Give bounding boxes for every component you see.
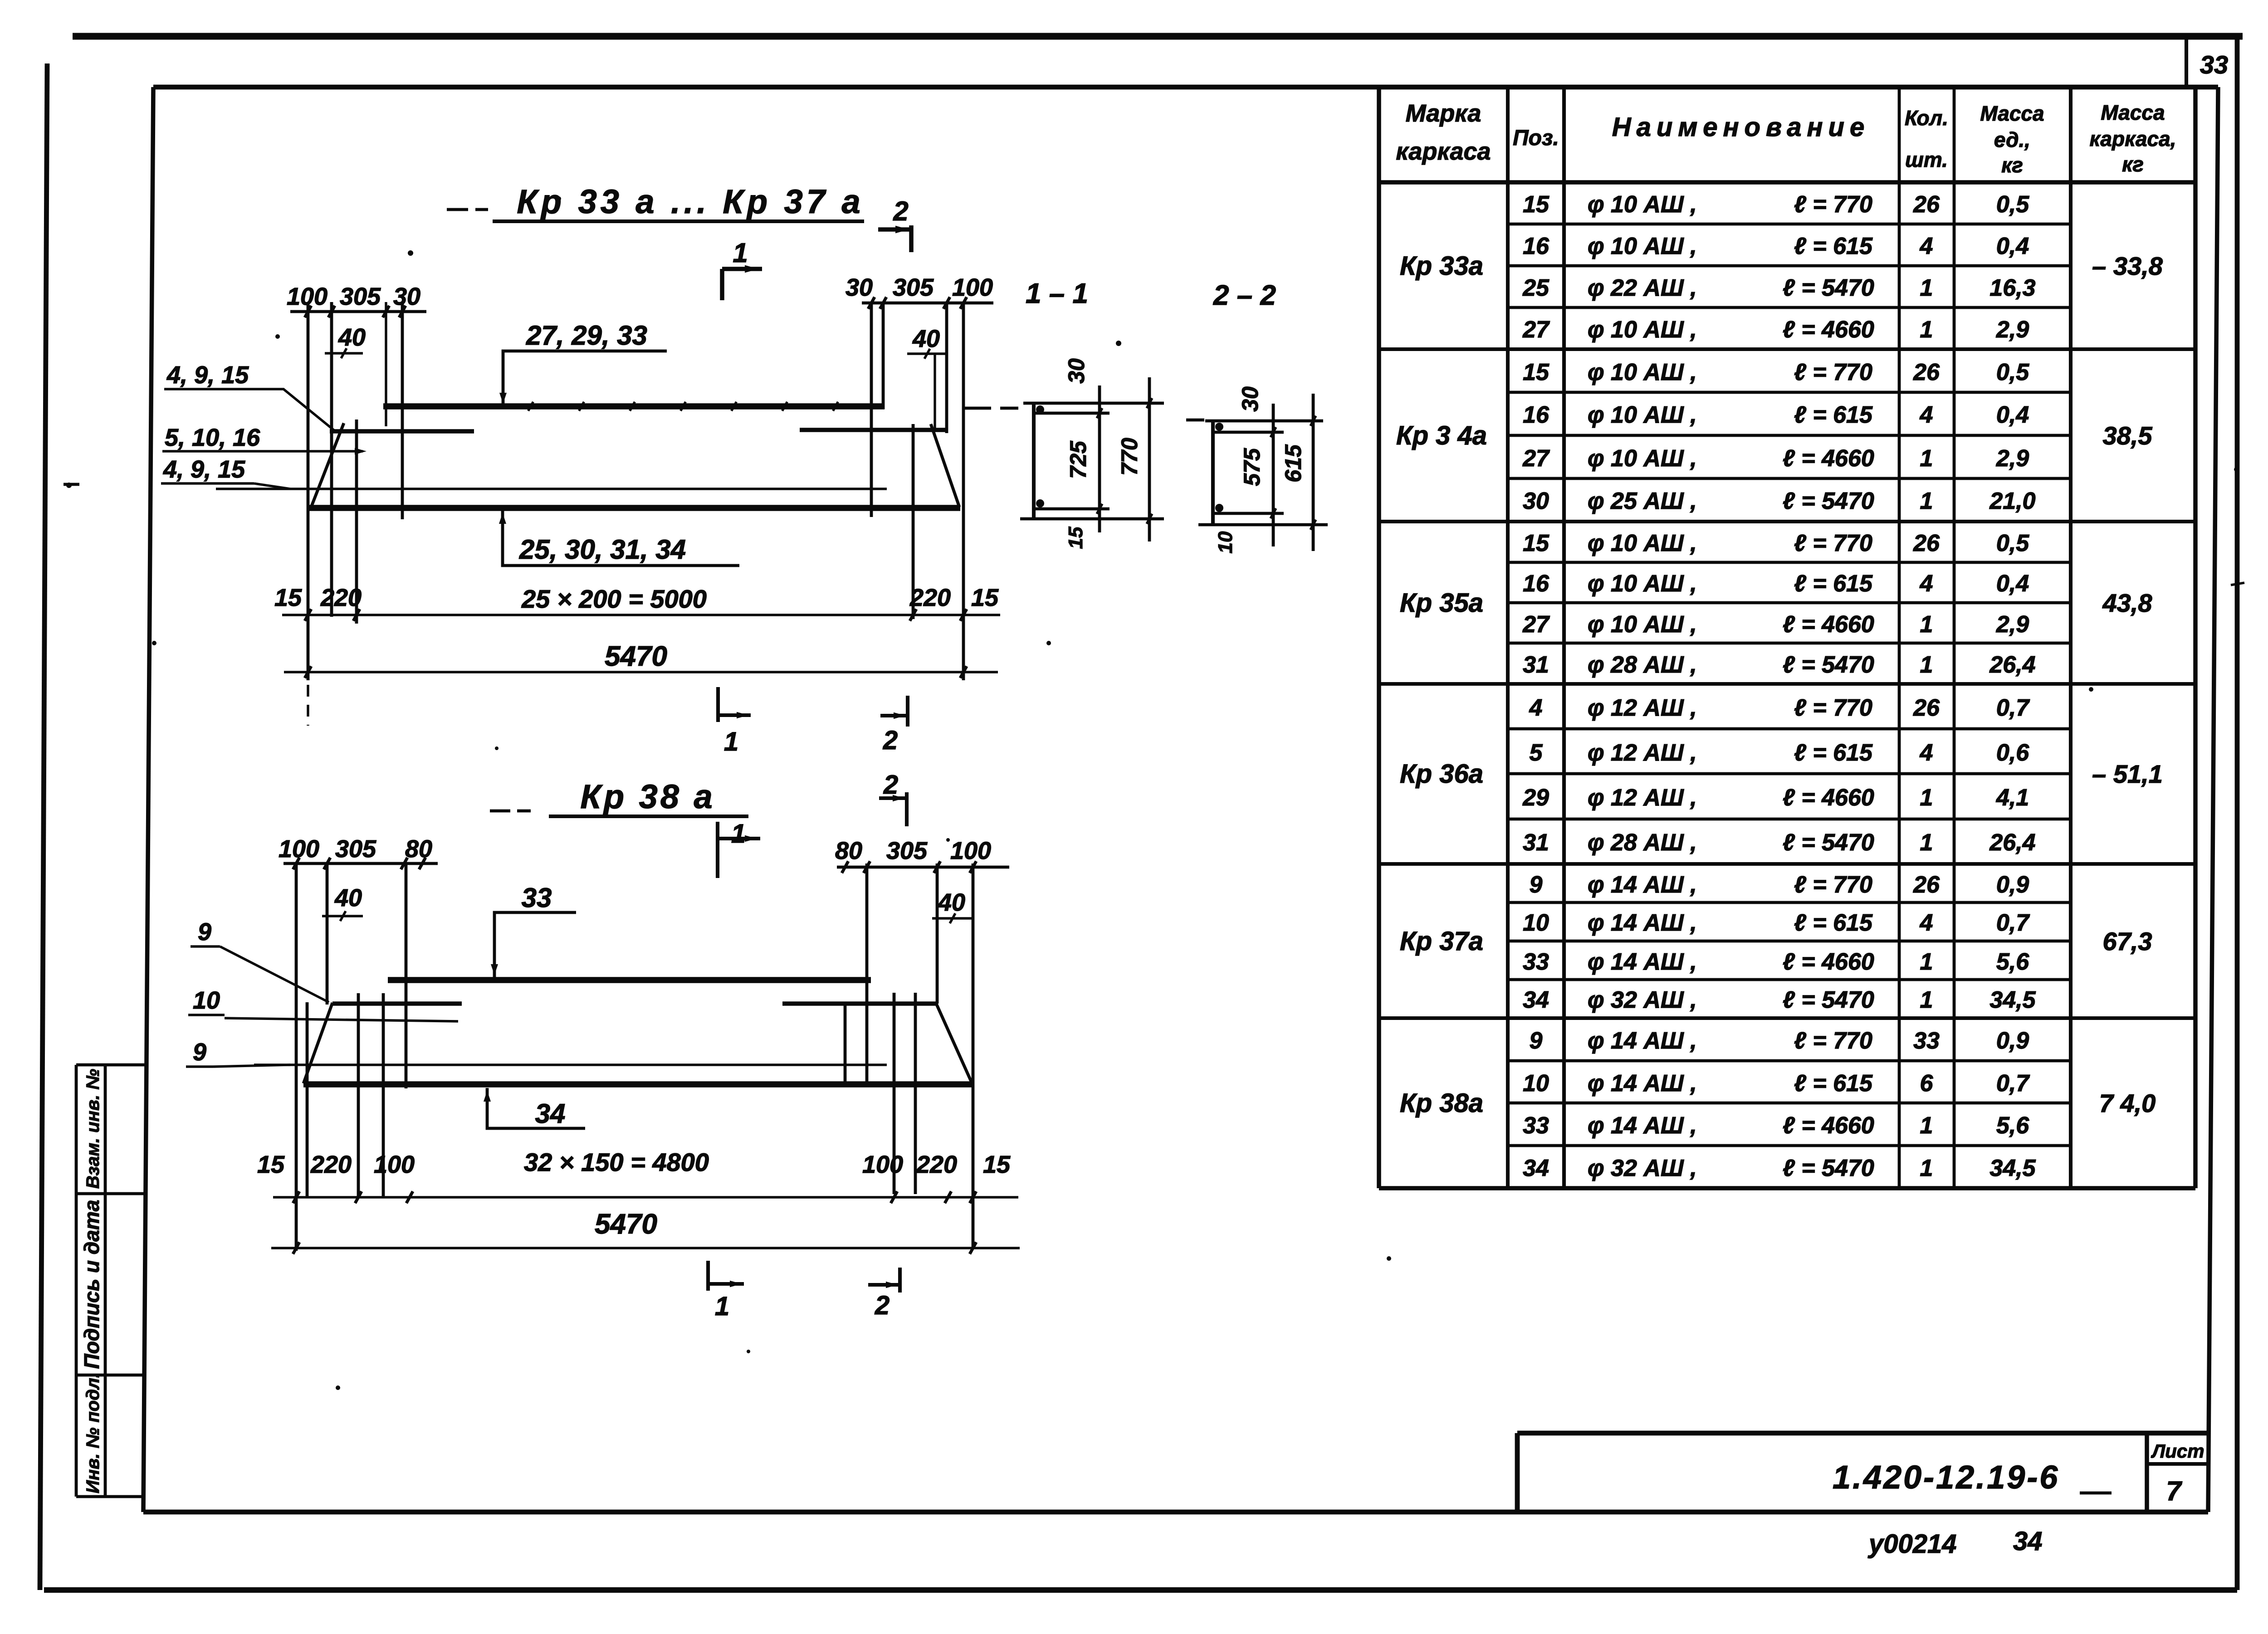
svg-text:ℓ = 770: ℓ = 770 (1794, 872, 1872, 898)
svg-text:0,5: 0,5 (1996, 359, 2029, 385)
svg-text:5, 10, 16: 5, 10, 16 (165, 424, 260, 451)
svg-text:15: 15 (983, 1151, 1011, 1178)
svg-text:4: 4 (1529, 695, 1543, 721)
table outer and column lines (1377, 87, 1381, 1188)
svg-text:1: 1 (1920, 987, 1933, 1013)
svg-text:220: 220 (916, 1151, 957, 1178)
svg-text:Инв. № подл.: Инв. № подл. (83, 1373, 103, 1493)
inner frame right (2208, 87, 2218, 1512)
svg-text:26: 26 (1913, 530, 1940, 556)
svg-text:ℓ = 615: ℓ = 615 (1794, 910, 1873, 936)
svg-text:ℓ = 5470: ℓ = 5470 (1783, 987, 1874, 1013)
svg-text:φ 14 АШ ,: φ 14 АШ , (1588, 1070, 1697, 1097)
section mark 2 bottom dwg1 (880, 714, 908, 717)
svg-text:32 × 150 = 4800: 32 × 150 = 4800 (524, 1148, 709, 1176)
svg-text:26: 26 (1913, 359, 1940, 385)
svg-text:10: 10 (193, 987, 220, 1014)
svg-text:80: 80 (835, 837, 862, 864)
svg-text:φ 10 АШ ,: φ 10 АШ , (1588, 402, 1697, 428)
svg-text:30: 30 (393, 283, 420, 310)
svg-text:5,6: 5,6 (1996, 949, 2029, 975)
svg-text:0,6: 0,6 (1996, 740, 2029, 766)
svg-text:φ 10 АШ ,: φ 10 АШ , (1588, 233, 1697, 259)
sheet outer border top (73, 33, 2243, 40)
svg-text:ℓ = 4660: ℓ = 4660 (1783, 949, 1874, 975)
sheet outer border left (40, 63, 47, 1590)
svg-text:2,9: 2,9 (1996, 317, 2029, 343)
svg-text:1: 1 (1920, 275, 1933, 301)
dwg2 top bar 33 (388, 977, 871, 983)
svg-text:φ 10 АШ ,: φ 10 АШ , (1588, 317, 1697, 343)
svg-text:Поз.: Поз. (1513, 126, 1559, 150)
dwg2 long thin bar (254, 1063, 887, 1066)
svg-text:7: 7 (2166, 1476, 2182, 1506)
center dash-dot line to sections (964, 407, 991, 410)
svg-text:25 × 200 = 5000: 25 × 200 = 5000 (521, 585, 707, 613)
svg-text:34: 34 (2013, 1527, 2043, 1556)
svg-text:ℓ = 5470: ℓ = 5470 (1783, 488, 1874, 514)
section 2-2 (1205, 419, 1323, 423)
svg-text:φ 12 АШ ,: φ 12 АШ , (1588, 785, 1697, 811)
svg-text:φ 14 АШ ,: φ 14 АШ , (1588, 949, 1697, 975)
svg-text:каркаса,: каркаса, (2090, 127, 2176, 151)
svg-text:27: 27 (1522, 317, 1550, 343)
svg-text:ℓ = 615: ℓ = 615 (1794, 740, 1873, 766)
svg-text:15: 15 (971, 584, 999, 611)
svg-text:27: 27 (1522, 611, 1550, 638)
svg-text:16: 16 (1523, 402, 1549, 428)
svg-text:40: 40 (938, 889, 965, 916)
svg-text:1: 1 (1920, 949, 1933, 975)
table header bottom line (1379, 180, 2195, 185)
svg-text:10: 10 (1214, 531, 1237, 553)
svg-text:ℓ = 4660: ℓ = 4660 (1783, 785, 1874, 811)
svg-text:770: 770 (1117, 438, 1142, 476)
svg-text:ℓ = 5470: ℓ = 5470 (1783, 652, 1874, 678)
svg-text:33: 33 (1523, 1112, 1549, 1139)
svg-text:220: 220 (320, 584, 362, 611)
svg-text:φ 14 АШ ,: φ 14 АШ , (1588, 910, 1697, 936)
svg-text:10: 10 (1523, 1070, 1549, 1097)
svg-text:0,9: 0,9 (1996, 1028, 2029, 1054)
svg-text:ℓ = 615: ℓ = 615 (1794, 571, 1873, 597)
svg-text:575: 575 (1239, 448, 1265, 486)
svg-text:5: 5 (1530, 740, 1543, 766)
svg-text:9: 9 (198, 918, 211, 946)
svg-text:4, 9, 15: 4, 9, 15 (163, 456, 245, 483)
section mark 1 bottom dwg2 (706, 1261, 710, 1291)
svg-text:1: 1 (1920, 317, 1933, 343)
svg-text:ℓ = 770: ℓ = 770 (1794, 1028, 1872, 1054)
svg-text:Масса: Масса (2101, 101, 2165, 124)
svg-text:φ 14 АШ ,: φ 14 АШ , (1588, 1028, 1697, 1054)
svg-text:31: 31 (1523, 829, 1549, 856)
svg-text:40: 40 (338, 324, 366, 351)
svg-text:Подпись и дата: Подпись и дата (80, 1200, 103, 1369)
drawing 2 title dash-dot (490, 810, 510, 813)
svg-text:5,6: 5,6 (1996, 1112, 2029, 1139)
svg-text:15: 15 (1065, 527, 1087, 549)
svg-text:0,5: 0,5 (1996, 191, 2029, 218)
section mark 1 bottom dwg1 (716, 687, 720, 722)
svg-text:27: 27 (1522, 445, 1550, 472)
svg-text:0,5: 0,5 (1996, 530, 2029, 556)
title block list divider (2145, 1433, 2149, 1512)
dwg1 right stirrup verticals (870, 302, 873, 517)
svg-text:1: 1 (715, 1292, 729, 1321)
svg-text:0,4: 0,4 (1996, 402, 2029, 428)
svg-text:305: 305 (886, 837, 928, 864)
svg-text:305: 305 (340, 283, 381, 310)
dwg1 long thin bar 4,9,15 (216, 488, 887, 490)
svg-text:φ 10 АШ ,: φ 10 АШ , (1588, 359, 1697, 385)
svg-text:34: 34 (1523, 987, 1549, 1013)
svg-text:Кр 38 а: Кр 38 а (580, 778, 715, 815)
svg-text:1: 1 (731, 819, 746, 849)
svg-text:ℓ = 615: ℓ = 615 (1794, 1070, 1873, 1097)
svg-text:каркаса: каркаса (1396, 138, 1491, 165)
svg-text:38,5: 38,5 (2103, 421, 2153, 450)
svg-text:1: 1 (1920, 1112, 1933, 1139)
svg-text:у00214: у00214 (1867, 1529, 1957, 1559)
svg-text:2: 2 (875, 1291, 890, 1320)
svg-text:15: 15 (1523, 191, 1549, 218)
svg-text:ℓ = 615: ℓ = 615 (1794, 402, 1873, 428)
svg-text:2: 2 (883, 770, 898, 800)
svg-text:1: 1 (724, 727, 738, 756)
svg-text:ℓ = 770: ℓ = 770 (1794, 191, 1872, 218)
svg-text:Кр 36а: Кр 36а (1400, 759, 1483, 789)
svg-text:30: 30 (1237, 386, 1263, 412)
svg-text:0,7: 0,7 (1996, 1070, 2030, 1097)
svg-text:4: 4 (1920, 740, 1933, 766)
svg-text:34: 34 (1523, 1155, 1549, 1181)
svg-text:φ 28 АШ ,: φ 28 АШ , (1588, 829, 1697, 856)
svg-text:φ 14 АШ ,: φ 14 АШ , (1588, 872, 1697, 898)
svg-text:φ 10 АШ ,: φ 10 АШ , (1588, 191, 1697, 218)
svg-text:30: 30 (1523, 488, 1549, 514)
svg-text:5470: 5470 (595, 1209, 657, 1240)
svg-text:4: 4 (1920, 233, 1933, 259)
title block top (1517, 1431, 2209, 1436)
svg-text:7 4,0: 7 4,0 (2099, 1089, 2156, 1117)
svg-text:0,4: 0,4 (1996, 233, 2029, 259)
svg-text:1: 1 (1920, 488, 1933, 514)
svg-text:5470: 5470 (605, 641, 667, 672)
dwg1 right bend diagonal (931, 424, 959, 507)
svg-text:33: 33 (1913, 1028, 1940, 1054)
svg-text:1: 1 (1920, 829, 1933, 856)
svg-text:2: 2 (883, 726, 898, 755)
svg-text:Наименование: Наименование (1612, 112, 1870, 142)
svg-text:Взам. инв. №: Взам. инв. № (83, 1069, 103, 1189)
svg-text:33: 33 (2200, 50, 2228, 79)
svg-text:ℓ = 770: ℓ = 770 (1794, 530, 1872, 556)
svg-text:26,4: 26,4 (1989, 652, 2035, 678)
dwg1 left stirrup verticals (307, 302, 310, 680)
dwg2 left stirrup verticals (295, 863, 298, 1251)
svg-text:φ 28 АШ ,: φ 28 АШ , (1588, 652, 1697, 678)
dwg2 bottom bar 34 (303, 1081, 973, 1088)
svg-text:305: 305 (335, 835, 376, 863)
svg-text:30: 30 (846, 274, 873, 301)
svg-text:0,4: 0,4 (1996, 571, 2029, 597)
svg-text:27, 29, 33: 27, 29, 33 (526, 320, 647, 351)
svg-text:29: 29 (1522, 785, 1549, 811)
sheet outer border right (2235, 36, 2240, 1590)
svg-text:305: 305 (893, 274, 934, 301)
svg-text:ℓ = 4660: ℓ = 4660 (1783, 1112, 1874, 1139)
svg-text:1: 1 (1920, 611, 1933, 638)
svg-text:40: 40 (334, 884, 362, 912)
svg-text:30: 30 (1064, 358, 1089, 384)
svg-text:Кр 38а: Кр 38а (1400, 1088, 1483, 1118)
svg-text:φ 14 АШ ,: φ 14 АШ , (1588, 1112, 1697, 1139)
svg-text:0,9: 0,9 (1996, 872, 2029, 898)
svg-text:4: 4 (1920, 571, 1933, 597)
inner frame bottom (143, 1510, 2208, 1515)
svg-text:25: 25 (1522, 275, 1549, 301)
svg-text:1 – 1: 1 – 1 (1026, 278, 1088, 309)
svg-text:1: 1 (1920, 785, 1933, 811)
svg-text:34,5: 34,5 (1989, 987, 2036, 1013)
svg-text:16,3: 16,3 (1989, 275, 2035, 301)
svg-text:φ 25 АШ ,: φ 25 АШ , (1588, 488, 1697, 514)
svg-text:Лист: Лист (2151, 1440, 2204, 1462)
svg-text:9: 9 (1530, 1028, 1543, 1054)
svg-text:Кр 33 а ... Кр 37 а: Кр 33 а ... Кр 37 а (517, 183, 864, 220)
svg-text:φ 12 АШ ,: φ 12 АШ , (1588, 740, 1697, 766)
dwg1 top bar stirrup ticks (528, 402, 533, 411)
svg-text:Кр 33а: Кр 33а (1400, 251, 1483, 281)
svg-text:Кр 37а: Кр 37а (1400, 927, 1483, 956)
svg-text:0,7: 0,7 (1996, 910, 2030, 936)
svg-text:φ 10 АШ ,: φ 10 АШ , (1588, 445, 1697, 472)
left stamp strip column lines (75, 1065, 78, 1497)
svg-text:26: 26 (1913, 695, 1940, 721)
svg-text:ед.,: ед., (1994, 128, 2030, 151)
svg-text:1: 1 (1920, 652, 1933, 678)
svg-text:26: 26 (1913, 872, 1940, 898)
dwg2 right bend diagonal (936, 1004, 972, 1083)
svg-text:15: 15 (274, 584, 302, 611)
svg-text:2: 2 (893, 196, 908, 226)
svg-text:25, 30, 31, 34: 25, 30, 31, 34 (519, 534, 686, 565)
svg-text:21,0: 21,0 (1989, 488, 2035, 514)
table row lines (1508, 223, 2071, 226)
svg-text:ℓ = 5470: ℓ = 5470 (1783, 1155, 1874, 1181)
dwg1 right short bar (800, 428, 948, 432)
svg-text:1: 1 (1920, 445, 1933, 472)
svg-text:6: 6 (1920, 1070, 1934, 1097)
svg-text:ℓ = 4660: ℓ = 4660 (1783, 611, 1874, 638)
svg-text:100: 100 (862, 1151, 903, 1178)
svg-text:Кр 35а: Кр 35а (1400, 588, 1483, 618)
svg-text:9: 9 (1530, 872, 1543, 898)
svg-text:1.420-12.19-6: 1.420-12.19-6 (1833, 1459, 2059, 1496)
dwg1 top bar 27,29,33 (383, 403, 885, 410)
svg-text:Масса: Масса (1980, 102, 2044, 125)
dwg1 left bend diagonal (311, 423, 344, 507)
svg-text:100: 100 (374, 1151, 415, 1178)
svg-text:34: 34 (535, 1098, 566, 1129)
svg-text:26: 26 (1913, 191, 1940, 218)
svg-text:220: 220 (909, 584, 951, 611)
svg-text:ℓ = 770: ℓ = 770 (1794, 359, 1872, 385)
svg-text:4: 4 (1920, 402, 1933, 428)
svg-text:26,4: 26,4 (1989, 829, 2035, 856)
svg-text:220: 220 (310, 1151, 352, 1178)
svg-text:– 33,8: – 33,8 (2092, 252, 2163, 280)
svg-text:16: 16 (1523, 233, 1549, 259)
svg-text:φ 32 АШ ,: φ 32 АШ , (1588, 987, 1697, 1013)
svg-text:ℓ = 5470: ℓ = 5470 (1783, 829, 1874, 856)
page number box line (2185, 36, 2188, 87)
svg-text:Кол.: Кол. (1905, 106, 1948, 130)
svg-text:34,5: 34,5 (1989, 1155, 2036, 1181)
svg-text:4: 4 (1920, 910, 1933, 936)
svg-text:φ 10 АШ ,: φ 10 АШ , (1588, 530, 1697, 556)
svg-text:– 51,1: – 51,1 (2092, 760, 2163, 788)
svg-text:43,8: 43,8 (2102, 589, 2153, 617)
svg-text:2 – 2: 2 – 2 (1213, 280, 1276, 311)
svg-text:4, 9, 15: 4, 9, 15 (166, 361, 249, 389)
svg-text:ℓ = 5470: ℓ = 5470 (1783, 275, 1874, 301)
section 1-1 (1023, 402, 1164, 405)
svg-text:ℓ = 770: ℓ = 770 (1794, 695, 1872, 721)
svg-text:33: 33 (522, 883, 552, 913)
left stamp strip row lines (76, 1063, 146, 1067)
svg-text:φ 32 АШ ,: φ 32 АШ , (1588, 1155, 1697, 1181)
svg-text:15: 15 (1523, 359, 1549, 385)
dwg1 bottom bar 25,30,31,34 (308, 505, 960, 511)
svg-text:80: 80 (405, 835, 432, 863)
sheet outer border bottom (44, 1587, 2237, 1593)
svg-text:15: 15 (1523, 530, 1549, 556)
svg-text:φ 22 АШ ,: φ 22 АШ , (1588, 275, 1697, 301)
svg-text:40: 40 (912, 325, 940, 352)
dwg1 left short bar (330, 429, 474, 434)
inner frame top (153, 85, 2218, 90)
svg-text:33: 33 (1523, 949, 1549, 975)
dwg2 left bend diagonal (303, 1003, 332, 1083)
dwg2 right stirrup verticals (844, 1004, 847, 1084)
scan specks (408, 250, 413, 256)
svg-text:шт.: шт. (1905, 148, 1948, 171)
svg-text:ℓ = 4660: ℓ = 4660 (1783, 445, 1874, 472)
svg-text:кг: кг (2122, 152, 2144, 176)
svg-text:φ 10 АШ ,: φ 10 АШ , (1588, 571, 1697, 597)
drawing 1 title dash-dot (447, 208, 468, 211)
svg-text:Кр 3 4а: Кр 3 4а (1396, 421, 1487, 450)
svg-text:ℓ = 615: ℓ = 615 (1794, 233, 1873, 259)
svg-text:ℓ = 4660: ℓ = 4660 (1783, 317, 1874, 343)
svg-text:φ 12 АШ ,: φ 12 АШ , (1588, 695, 1697, 721)
svg-text:9: 9 (193, 1039, 206, 1066)
svg-text:67,3: 67,3 (2103, 927, 2152, 956)
title block left (1515, 1433, 1520, 1512)
dwg2 right short bar (782, 1001, 937, 1006)
svg-text:100: 100 (950, 837, 991, 864)
svg-text:0,7: 0,7 (1996, 695, 2030, 721)
svg-text:2,9: 2,9 (1996, 445, 2029, 472)
svg-text:31: 31 (1523, 652, 1549, 678)
svg-text:1: 1 (733, 238, 748, 268)
svg-text:725: 725 (1066, 440, 1091, 479)
inner frame left (143, 87, 153, 1512)
section mark 2 bottom dwg2 (868, 1283, 900, 1287)
svg-text:100: 100 (952, 274, 993, 301)
svg-text:15: 15 (257, 1151, 285, 1178)
svg-text:4,1: 4,1 (1996, 785, 2029, 811)
svg-text:16: 16 (1523, 571, 1549, 597)
svg-text:2,9: 2,9 (1996, 611, 2029, 638)
svg-text:615: 615 (1281, 444, 1306, 483)
table bottom line (1379, 1186, 2195, 1190)
svg-text:кг: кг (2001, 153, 2023, 177)
svg-text:10: 10 (1523, 910, 1549, 936)
svg-text:1: 1 (1920, 1155, 1933, 1181)
svg-text:Марка: Марка (1406, 100, 1481, 127)
dwg2 left short bar (332, 1001, 462, 1006)
svg-text:φ 10 АШ ,: φ 10 АШ , (1588, 611, 1697, 638)
